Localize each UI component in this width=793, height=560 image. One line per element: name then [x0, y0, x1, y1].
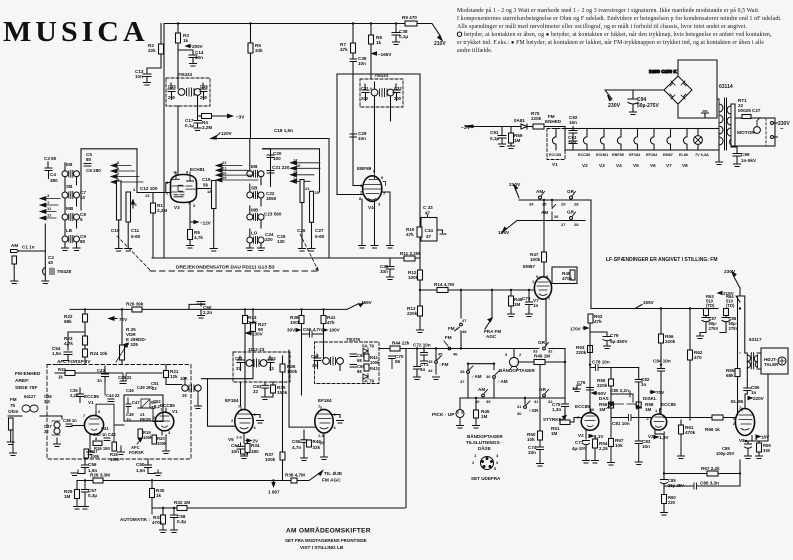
wire detector out right	[419, 74, 421, 258]
svg-text:ECH81: ECH81	[596, 153, 608, 157]
svg-text:5: 5	[505, 352, 508, 357]
svg-text:LF-SPÆNDINGER ER ANGIVET I: LF-SPÆNDINGER ER ANGIVET I STILLING: FM	[606, 257, 717, 263]
resistor R70	[533, 124, 544, 129]
130V arrow	[246, 331, 251, 335]
svg-text:V3: V3	[174, 205, 180, 210]
V6 cathode ground	[321, 433, 328, 460]
svg-text:46: 46	[453, 352, 458, 357]
120V arrow + feedback wire C18	[211, 136, 329, 139]
wire secondary to motor	[731, 104, 735, 146]
svg-text:FM-ENHED: FM-ENHED	[15, 371, 41, 377]
ECC85 V2b	[647, 402, 677, 435]
contacts 31 30 GR below rail2	[524, 398, 526, 404]
svg-text:33k: 33k	[313, 445, 321, 450]
capacitor C67	[314, 354, 321, 369]
svg-text:29: 29	[561, 202, 566, 207]
72V arrow	[109, 318, 117, 320]
oscillator coil MB	[247, 206, 264, 228]
svg-text:AGC: AGC	[486, 334, 497, 339]
capacitor C5 C6	[81, 149, 137, 210]
svg-text:470k: 470k	[685, 430, 696, 435]
EF184 V5	[225, 398, 257, 442]
svg-text:1n: 1n	[533, 303, 539, 308]
svg-text:C46: C46	[126, 388, 134, 393]
EBF89 V4	[357, 166, 386, 210]
FM unit dashed box	[47, 365, 191, 460]
svg-text:15n: 15n	[569, 120, 577, 125]
svg-text:3: 3	[168, 430, 171, 435]
svg-text:4,7k: 4,7k	[194, 235, 203, 240]
svg-text:C79: C79	[610, 333, 619, 338]
svg-text:R32 1M: R32 1M	[174, 500, 190, 505]
svg-text:C43: C43	[97, 368, 105, 373]
svg-text:FM AGC: FM AGC	[322, 478, 341, 484]
svg-text:R43: R43	[370, 366, 378, 371]
resistor R27	[251, 323, 256, 332]
svg-text:63117: 63117	[749, 337, 762, 342]
svg-text:EF184: EF184	[225, 398, 239, 403]
svg-text:AM OMRÅDEOMSKIFTER: AM OMRÅDEOMSKIFTER	[286, 526, 371, 535]
svg-text:V3: V3	[599, 163, 605, 168]
svg-text:V5: V5	[633, 163, 639, 168]
svg-text:C64: C64	[231, 443, 240, 448]
svg-text:C6 280: C6 280	[86, 168, 101, 173]
svg-text:10n: 10n	[195, 55, 203, 60]
resistors R42 R43	[364, 354, 369, 361]
capacitor C82	[635, 368, 642, 403]
wire grid1	[137, 192, 171, 194]
contacts 36 AM second	[493, 364, 495, 370]
capacitor C92	[569, 127, 577, 139]
svg-text:15: 15	[182, 393, 187, 398]
svg-text:31: 31	[517, 404, 522, 409]
svg-text:C12 100: C12 100	[140, 186, 158, 191]
C77 R54 cathode	[583, 434, 590, 463]
svg-text:63114: 63114	[719, 84, 733, 90]
resistor R28	[93, 478, 103, 483]
svg-text:1: 1	[47, 200, 50, 205]
svg-text:C41: C41	[101, 426, 109, 431]
svg-text:LO: LO	[251, 231, 258, 236]
svg-text:C19: C19	[202, 177, 211, 182]
svg-text:1112-23: 1112-23	[248, 347, 265, 352]
svg-text:100V: 100V	[329, 328, 341, 333]
svg-text:EM87: EM87	[523, 264, 535, 269]
svg-text:S8GE 75F: S8GE 75F	[15, 385, 37, 391]
svg-text:47: 47	[426, 234, 432, 239]
oscillator coil SB	[247, 184, 264, 206]
svg-text:SB: SB	[66, 184, 73, 189]
svg-text:200V: 200V	[192, 44, 204, 49]
grounds audio row	[545, 343, 547, 346]
svg-text:MOTOR: MOTOR	[737, 130, 755, 136]
capacitors C68 C69	[350, 354, 357, 367]
resistor R9	[405, 21, 417, 26]
oscillator coil EB	[247, 139, 264, 185]
svg-text:1-3: 1-3	[236, 435, 243, 440]
svg-text:6: 6	[334, 425, 337, 430]
svg-text:5µ-350V: 5µ-350V	[610, 339, 628, 344]
svg-text:200: 200	[168, 95, 176, 100]
svg-text:6: 6	[254, 425, 257, 430]
svg-text:AM: AM	[478, 387, 485, 392]
svg-text:220k: 220k	[531, 116, 542, 121]
svg-text:~: ~	[780, 127, 784, 133]
svg-text:1n: 1n	[751, 390, 757, 395]
svg-text:C86 3,3n: C86 3,3n	[700, 481, 719, 486]
oscillator trimmers	[300, 180, 304, 203]
svg-text:0,1µ: 0,1µ	[490, 136, 499, 141]
inner oscillator box	[124, 395, 163, 421]
svg-text:Alle spændinger er målt med rø: Alle spændinger er målt med rørvoltmeter…	[457, 23, 748, 30]
svg-text:220k: 220k	[407, 311, 418, 316]
svg-text:R38 4,7M: R38 4,7M	[285, 473, 305, 478]
svg-text:C4: C4	[50, 172, 56, 177]
svg-text:R15: R15	[58, 367, 66, 372]
resistor R33	[243, 316, 248, 324]
svg-text:2,2n: 2,2n	[70, 393, 79, 398]
svg-text:R9 470: R9 470	[402, 15, 417, 20]
transformer 63114	[719, 84, 733, 150]
svg-text:10n: 10n	[358, 61, 366, 66]
wire right bus down	[590, 200, 592, 309]
svg-text:1n: 1n	[97, 378, 102, 383]
svg-text:68: 68	[357, 358, 362, 363]
svg-text:33n: 33n	[528, 450, 536, 455]
svg-text:5: 5	[494, 466, 497, 471]
70V arrow	[650, 391, 655, 393]
svg-text:100k: 100k	[157, 441, 167, 446]
svg-text:330: 330	[763, 448, 771, 453]
svg-text:28: 28	[574, 202, 579, 207]
svg-text:70I376: 70I376	[346, 337, 360, 342]
resistor R47	[542, 252, 547, 262]
svg-text:♂AM: ♂AM	[471, 374, 482, 379]
capacitor C14	[178, 50, 197, 64]
svg-text:R44 22k: R44 22k	[392, 341, 410, 346]
svg-text:00025 C27: 00025 C27	[738, 108, 761, 113]
antenna coil EB	[62, 162, 80, 185]
capacitor C31	[362, 84, 369, 101]
svg-text:ECC85: ECC85	[661, 402, 676, 407]
wire V2a anode	[589, 323, 591, 412]
FM det coil	[182, 385, 188, 391]
resistor R52	[588, 314, 593, 323]
svg-text:3: 3	[193, 203, 196, 208]
wire heater box to transformer	[718, 129, 720, 163]
svg-text:I komponenternes størrelsesbet: I komponenternes størrelsesbetegnelse er…	[457, 15, 782, 22]
svg-text:C99: C99	[741, 152, 750, 157]
svg-text:120V: 120V	[221, 131, 233, 136]
svg-text:C56: C56	[88, 462, 97, 467]
svg-text:130V: 130V	[252, 332, 264, 337]
motor unit	[735, 98, 790, 146]
C85 R60	[661, 434, 668, 495]
ECC85 V1a	[83, 394, 104, 441]
svg-text:ECC85: ECC85	[578, 153, 590, 157]
svg-text:C31: C31	[361, 86, 369, 91]
resistor R23	[83, 336, 88, 345]
svg-text:PICK - UP: PICK - UP	[432, 412, 455, 418]
capacitor C91, resistor R69	[490, 127, 523, 149]
svg-text:100µ-25V: 100µ-25V	[716, 451, 734, 456]
svg-text:470k: 470k	[562, 276, 573, 281]
balun coil	[8, 405, 38, 416]
svg-text:45: 45	[428, 359, 433, 364]
svg-text:100k: 100k	[530, 257, 541, 262]
svg-text:R34: R34	[251, 443, 260, 448]
cathode C64 R34	[237, 433, 248, 454]
heater tube labels	[578, 153, 709, 157]
wire oscillator bottom rail	[152, 257, 420, 259]
svg-text:36: 36	[486, 374, 491, 379]
wires in FM box	[85, 373, 162, 395]
capacitor C73	[526, 290, 533, 317]
svg-text:1M: 1M	[64, 494, 71, 499]
svg-text:EBF89: EBF89	[357, 166, 372, 171]
svg-text:28: 28	[574, 222, 579, 227]
svg-text:2,2k: 2,2k	[248, 320, 257, 325]
MUSICA logo	[3, 17, 149, 48]
svg-text:ECH81: ECH81	[190, 167, 205, 172]
wire tape rail2	[460, 397, 565, 399]
capacitor C20	[263, 149, 271, 187]
ECH81 V3	[166, 167, 205, 210]
svg-text:1,3n: 1,3n	[552, 407, 561, 412]
svg-text:C80 2,2n: C80 2,2n	[610, 388, 629, 393]
capacitor C62	[267, 356, 274, 371]
resistor R8	[369, 35, 374, 44]
capacitor C38	[392, 24, 400, 43]
left edge ground wire	[10, 425, 17, 456]
svg-text:♂AM: ♂AM	[497, 379, 508, 384]
box C34	[421, 218, 437, 242]
svg-text:1n-5kV: 1n-5kV	[741, 158, 757, 163]
capacitor C72	[421, 349, 428, 362]
svg-text:C3 80: C3 80	[44, 156, 57, 161]
pin9 ground	[251, 415, 264, 424]
svg-text:220: 220	[265, 237, 273, 242]
svg-text:6: 6	[592, 407, 595, 412]
svg-text:17: 17	[293, 157, 298, 162]
capacitor C93	[569, 138, 577, 150]
svg-text:SET FRA MODTAGERENS FRONTSIDE: SET FRA MODTAGERENS FRONTSIDE	[285, 538, 367, 543]
speaker	[761, 348, 788, 374]
svg-text:200: 200	[361, 96, 369, 101]
svg-text:C61: C61	[235, 356, 243, 361]
wire bank box	[136, 149, 138, 193]
svg-text:100k: 100k	[408, 275, 419, 280]
svg-text:39: 39	[486, 399, 491, 404]
capacitor C90	[744, 380, 751, 409]
svg-text:R26 39k: R26 39k	[126, 302, 144, 307]
svg-text:GR: GR	[567, 189, 575, 194]
wire bank to gnd	[44, 224, 46, 281]
dashed pointer from C10	[117, 236, 150, 270]
resistor R46	[509, 296, 514, 306]
svg-text:TILSLUTNINGS-: TILSLUTNINGS-	[466, 440, 501, 445]
ground below heater chain	[716, 162, 723, 165]
svg-text:−165V: −165V	[378, 52, 392, 57]
resistor R36	[280, 364, 285, 372]
resistor R56b	[659, 334, 664, 343]
210V arrow top right	[438, 36, 443, 41]
svg-text:MUSICA: MUSICA	[3, 17, 149, 48]
svg-text:C44 22: C44 22	[106, 393, 120, 398]
resistor R55	[609, 379, 614, 386]
PICK-UP	[459, 398, 461, 409]
svg-text:15n: 15n	[568, 140, 576, 145]
svg-text:10k: 10k	[527, 437, 535, 442]
svg-text:68k: 68k	[726, 373, 734, 378]
svg-text:100k: 100k	[370, 360, 380, 365]
svg-text:AM: AM	[536, 189, 543, 194]
oscillator padder cap	[212, 181, 217, 209]
drejekondensator dashed line	[150, 270, 318, 272]
diode 0A81	[521, 124, 527, 129]
wire IF2 secondary down	[390, 107, 392, 121]
svg-text:3,3: 3,3	[44, 399, 50, 404]
resistor R20	[152, 435, 157, 444]
170V arrow	[583, 327, 588, 329]
svg-text:48: 48	[462, 329, 467, 334]
IF can 70I433 no2	[360, 79, 403, 107]
svg-text:220k: 220k	[576, 350, 587, 355]
svg-text:V1: V1	[552, 162, 558, 167]
capacitor C29	[350, 134, 357, 137]
coil 70I428	[43, 268, 46, 276]
svg-text:220: 220	[668, 500, 676, 505]
svg-text:R66 1k: R66 1k	[705, 427, 720, 432]
svg-text:1: 1	[655, 408, 658, 413]
wire -3V heater feed	[473, 127, 565, 129]
svg-text:13: 13	[145, 193, 150, 198]
svg-text:36: 36	[554, 214, 559, 219]
svg-text:39: 39	[312, 363, 317, 368]
svg-text:1,1V: 1,1V	[594, 434, 604, 439]
svg-text:SB: SB	[251, 186, 258, 191]
svg-text:72V: 72V	[119, 317, 128, 322]
svg-text:27: 27	[561, 222, 566, 227]
svg-text:2,2M: 2,2M	[157, 208, 167, 213]
svg-text:ECC85: ECC85	[84, 394, 99, 399]
ground below C99/motor	[736, 163, 738, 165]
svg-text:EBF89: EBF89	[612, 153, 624, 157]
svg-text:80: 80	[80, 239, 86, 244]
capacitor C94	[628, 90, 659, 115]
svg-text:FORSP.: FORSP.	[129, 450, 144, 455]
grounds under antenna coils	[62, 248, 69, 251]
wire screen bus	[371, 24, 375, 172]
svg-text:230V: 230V	[608, 103, 621, 109]
svg-text:−3V: −3V	[236, 115, 245, 120]
svg-text:C66 4,7n: C66 4,7n	[303, 327, 322, 332]
svg-text:22: 22	[253, 389, 259, 394]
capacitor C60	[189, 302, 205, 316]
svg-text:C18 1,5n: C18 1,5n	[274, 128, 293, 133]
svg-text:64127: 64127	[24, 394, 36, 399]
svg-text:ENHED: ENHED	[545, 119, 562, 124]
svg-text:1: 1	[474, 453, 477, 458]
svg-text:V1: V1	[88, 400, 94, 405]
svg-text:38: 38	[460, 369, 465, 374]
heater chain box	[565, 129, 719, 151]
svg-text:V6: V6	[650, 163, 656, 168]
capacitor C54	[63, 332, 85, 361]
svg-text:2: 2	[135, 202, 138, 207]
wire anode bus left	[352, 24, 354, 177]
svg-text:10n: 10n	[135, 74, 143, 79]
svg-text:C49 180: C49 180	[137, 385, 154, 390]
svg-text:C 33: C 33	[423, 205, 433, 210]
notes paragraph	[457, 7, 782, 54]
svg-text:170V: 170V	[570, 327, 582, 332]
215V arrow	[718, 292, 722, 294]
svg-text:ECC85: ECC85	[575, 404, 590, 409]
svg-text:V8: V8	[682, 163, 688, 168]
cap C47 trimmer in box	[126, 398, 131, 413]
svg-text:220k: 220k	[597, 383, 608, 388]
svg-text:DISKL: DISKL	[643, 396, 657, 401]
coupling C78	[590, 365, 639, 371]
svg-text:150k: 150k	[110, 457, 120, 462]
svg-text:4: 4	[496, 453, 499, 458]
resistor R61	[680, 420, 682, 425]
svg-text:B250 C150 K: B250 C150 K	[649, 69, 678, 74]
svg-text:68k: 68k	[64, 319, 72, 324]
svg-text:V4: V4	[616, 163, 622, 168]
grounds under osc coils	[246, 248, 253, 251]
switch contacts 17 16 15 14	[291, 157, 321, 183]
wire top B+ rail	[164, 24, 440, 36]
svg-text:7V 6,3A: 7V 6,3A	[695, 153, 709, 157]
svg-text:C26: C26	[297, 228, 306, 233]
wire automatik rail	[152, 507, 405, 509]
resistor R7	[351, 43, 356, 53]
resistor R49	[518, 361, 565, 363]
svg-text:4: 4	[133, 187, 136, 192]
svg-text:V2: V2	[578, 433, 584, 438]
capacitor C71	[414, 349, 421, 378]
wire V2b grid	[646, 417, 651, 419]
svg-text:V2: V2	[648, 434, 654, 439]
svg-text:C27: C27	[315, 228, 324, 233]
svg-text:betyder, at kontakten er åben,: betyder, at kontakten er åben, og ● bety…	[464, 31, 772, 38]
capacitor C70	[389, 356, 396, 369]
heater V3	[600, 129, 604, 150]
svg-text:GR: GR	[538, 340, 546, 345]
svg-text:1k: 1k	[156, 493, 162, 498]
open-contact legend circle	[457, 32, 461, 36]
resistor R17	[84, 449, 89, 458]
resistor R1	[151, 203, 156, 213]
200V arrow	[186, 45, 191, 47]
svg-text:C11: C11	[131, 228, 140, 233]
svg-text:R67 2,2k: R67 2,2k	[701, 466, 720, 471]
svg-text:C10: C10	[111, 228, 120, 233]
svg-text:470: 470	[694, 355, 702, 360]
svg-text:AM: AM	[541, 210, 548, 215]
EM87 cathode down	[545, 299, 547, 343]
svg-text:380: 380	[50, 178, 58, 183]
resistor R38	[291, 478, 297, 483]
svg-text:70I433: 70I433	[178, 72, 192, 77]
svg-text:10A: 10A	[180, 376, 188, 381]
wire long vertical left	[405, 349, 407, 508]
svg-text:AM: AM	[11, 243, 18, 248]
resistor R26 series in rail	[132, 307, 142, 312]
svg-text:2,2k: 2,2k	[599, 446, 608, 451]
